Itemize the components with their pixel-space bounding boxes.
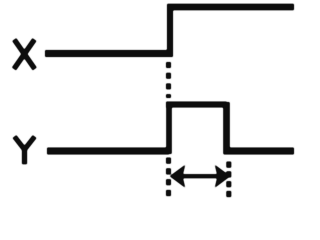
wire Y pulse top segment [166,102,227,108]
label X [14,40,35,70]
wire Y low right segment [224,148,295,155]
wire Y low left segment [47,148,169,155]
dashed guide line left lower [166,158,171,197]
delay arrow shaft [181,174,219,178]
wire Y pulse rising edge [166,105,172,155]
wire Y pulse falling edge [223,102,230,154]
delay arrow left head [171,166,185,187]
dashed guide line left upper [166,62,171,98]
wire X low segment [45,50,170,57]
label Y [14,137,34,165]
wire X high segment [167,4,294,11]
delay arrow right head [216,166,230,187]
dashed guide line right lower [226,162,231,198]
wire X rising edge [167,7,173,57]
